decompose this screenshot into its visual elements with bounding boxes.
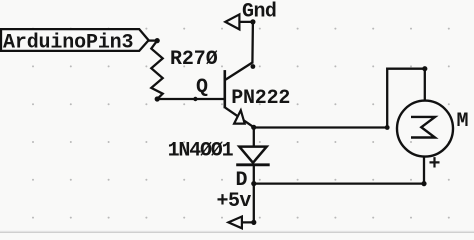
diode D1 1N4001 (236, 147, 270, 165)
transistor Q1 PN222 (225, 63, 254, 128)
wire emitter node to motor top (254, 69, 425, 128)
wire motor bottom to diode node (254, 182, 424, 184)
wire collector to ground (239, 22, 253, 64)
svg-text:M: M (457, 110, 469, 133)
wire emitter node down to diode (253, 127, 255, 147)
svg-text:1N4ØØ1: 1N4ØØ1 (168, 140, 234, 163)
svg-text:+: + (429, 153, 441, 176)
svg-text:D: D (236, 169, 248, 192)
svg-text:Gnd: Gnd (242, 0, 276, 23)
svg-text:PN222: PN222 (231, 87, 290, 110)
junction dot emitter node (251, 125, 256, 130)
wire flag tip to resistor top (149, 39, 158, 41)
motor M1 (397, 101, 453, 157)
junction dot diode node (251, 181, 256, 186)
junction dot wire corner (385, 125, 390, 130)
wire bottom node to +5v symbol (242, 184, 254, 223)
net flag ArduinoPin3 (1, 29, 149, 51)
junction dot at resistor bottom (155, 96, 160, 101)
wire resistor bottom to Q1 base (157, 98, 225, 100)
wire motor bottom (423, 157, 425, 184)
junction dot at ground corner (250, 19, 255, 24)
svg-text:+5v: +5v (217, 190, 252, 213)
junction dot on base wire (193, 97, 197, 101)
junction dot +5v corner (251, 220, 256, 225)
wire diode to bottom node (253, 165, 255, 184)
svg-text:R27Ø: R27Ø (170, 48, 218, 71)
svg-text:ArduinoPin3: ArduinoPin3 (3, 32, 133, 55)
ground symbol (225, 14, 239, 29)
junction dot collector corner (251, 64, 256, 69)
junction dot motor top corner (422, 66, 427, 71)
+5v supply symbol (228, 217, 242, 229)
svg-text:Q: Q (196, 76, 208, 99)
resistor R1 R270 (151, 41, 162, 99)
junction dot motor bottom corner (421, 181, 426, 186)
junction dot at resistor top (155, 38, 160, 43)
